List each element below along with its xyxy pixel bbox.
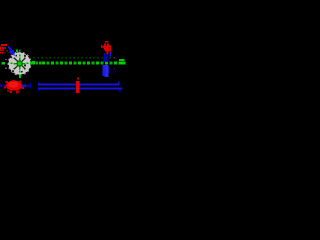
wire: thin upper green dashed line <box>34 57 125 61</box>
background <box>0 0 128 128</box>
component U1: black notches <box>104 44 107 52</box>
left blue pipe segment <box>0 82 31 88</box>
double blue pipe line <box>38 82 122 92</box>
fan F1: impeller spokes (diagonals darker, axials green) <box>14 58 26 70</box>
blue probe legs under U1 <box>103 52 115 77</box>
fan F1: body circle <box>8 52 31 75</box>
fan F1: green hub <box>17 60 23 66</box>
red valve bar on pipe <box>76 78 79 93</box>
red splat on left pipe <box>4 80 24 93</box>
fan F1: rim bolt dots <box>10 55 26 73</box>
wire: horizontal green dashed centerline <box>2 61 126 64</box>
node: green rim tick right <box>30 61 33 64</box>
pump/component U1 (red block figure) <box>101 41 111 54</box>
node: green rim tick bottom (vertical dashed line) <box>19 74 21 77</box>
blue arrow into fan <box>8 46 15 56</box>
node: gray tick marks left of fan <box>6 59 7 60</box>
centerline dashes inside fan <box>11 54 29 72</box>
node: green rim tick top pair <box>16 50 18 53</box>
red label left <box>0 44 9 54</box>
